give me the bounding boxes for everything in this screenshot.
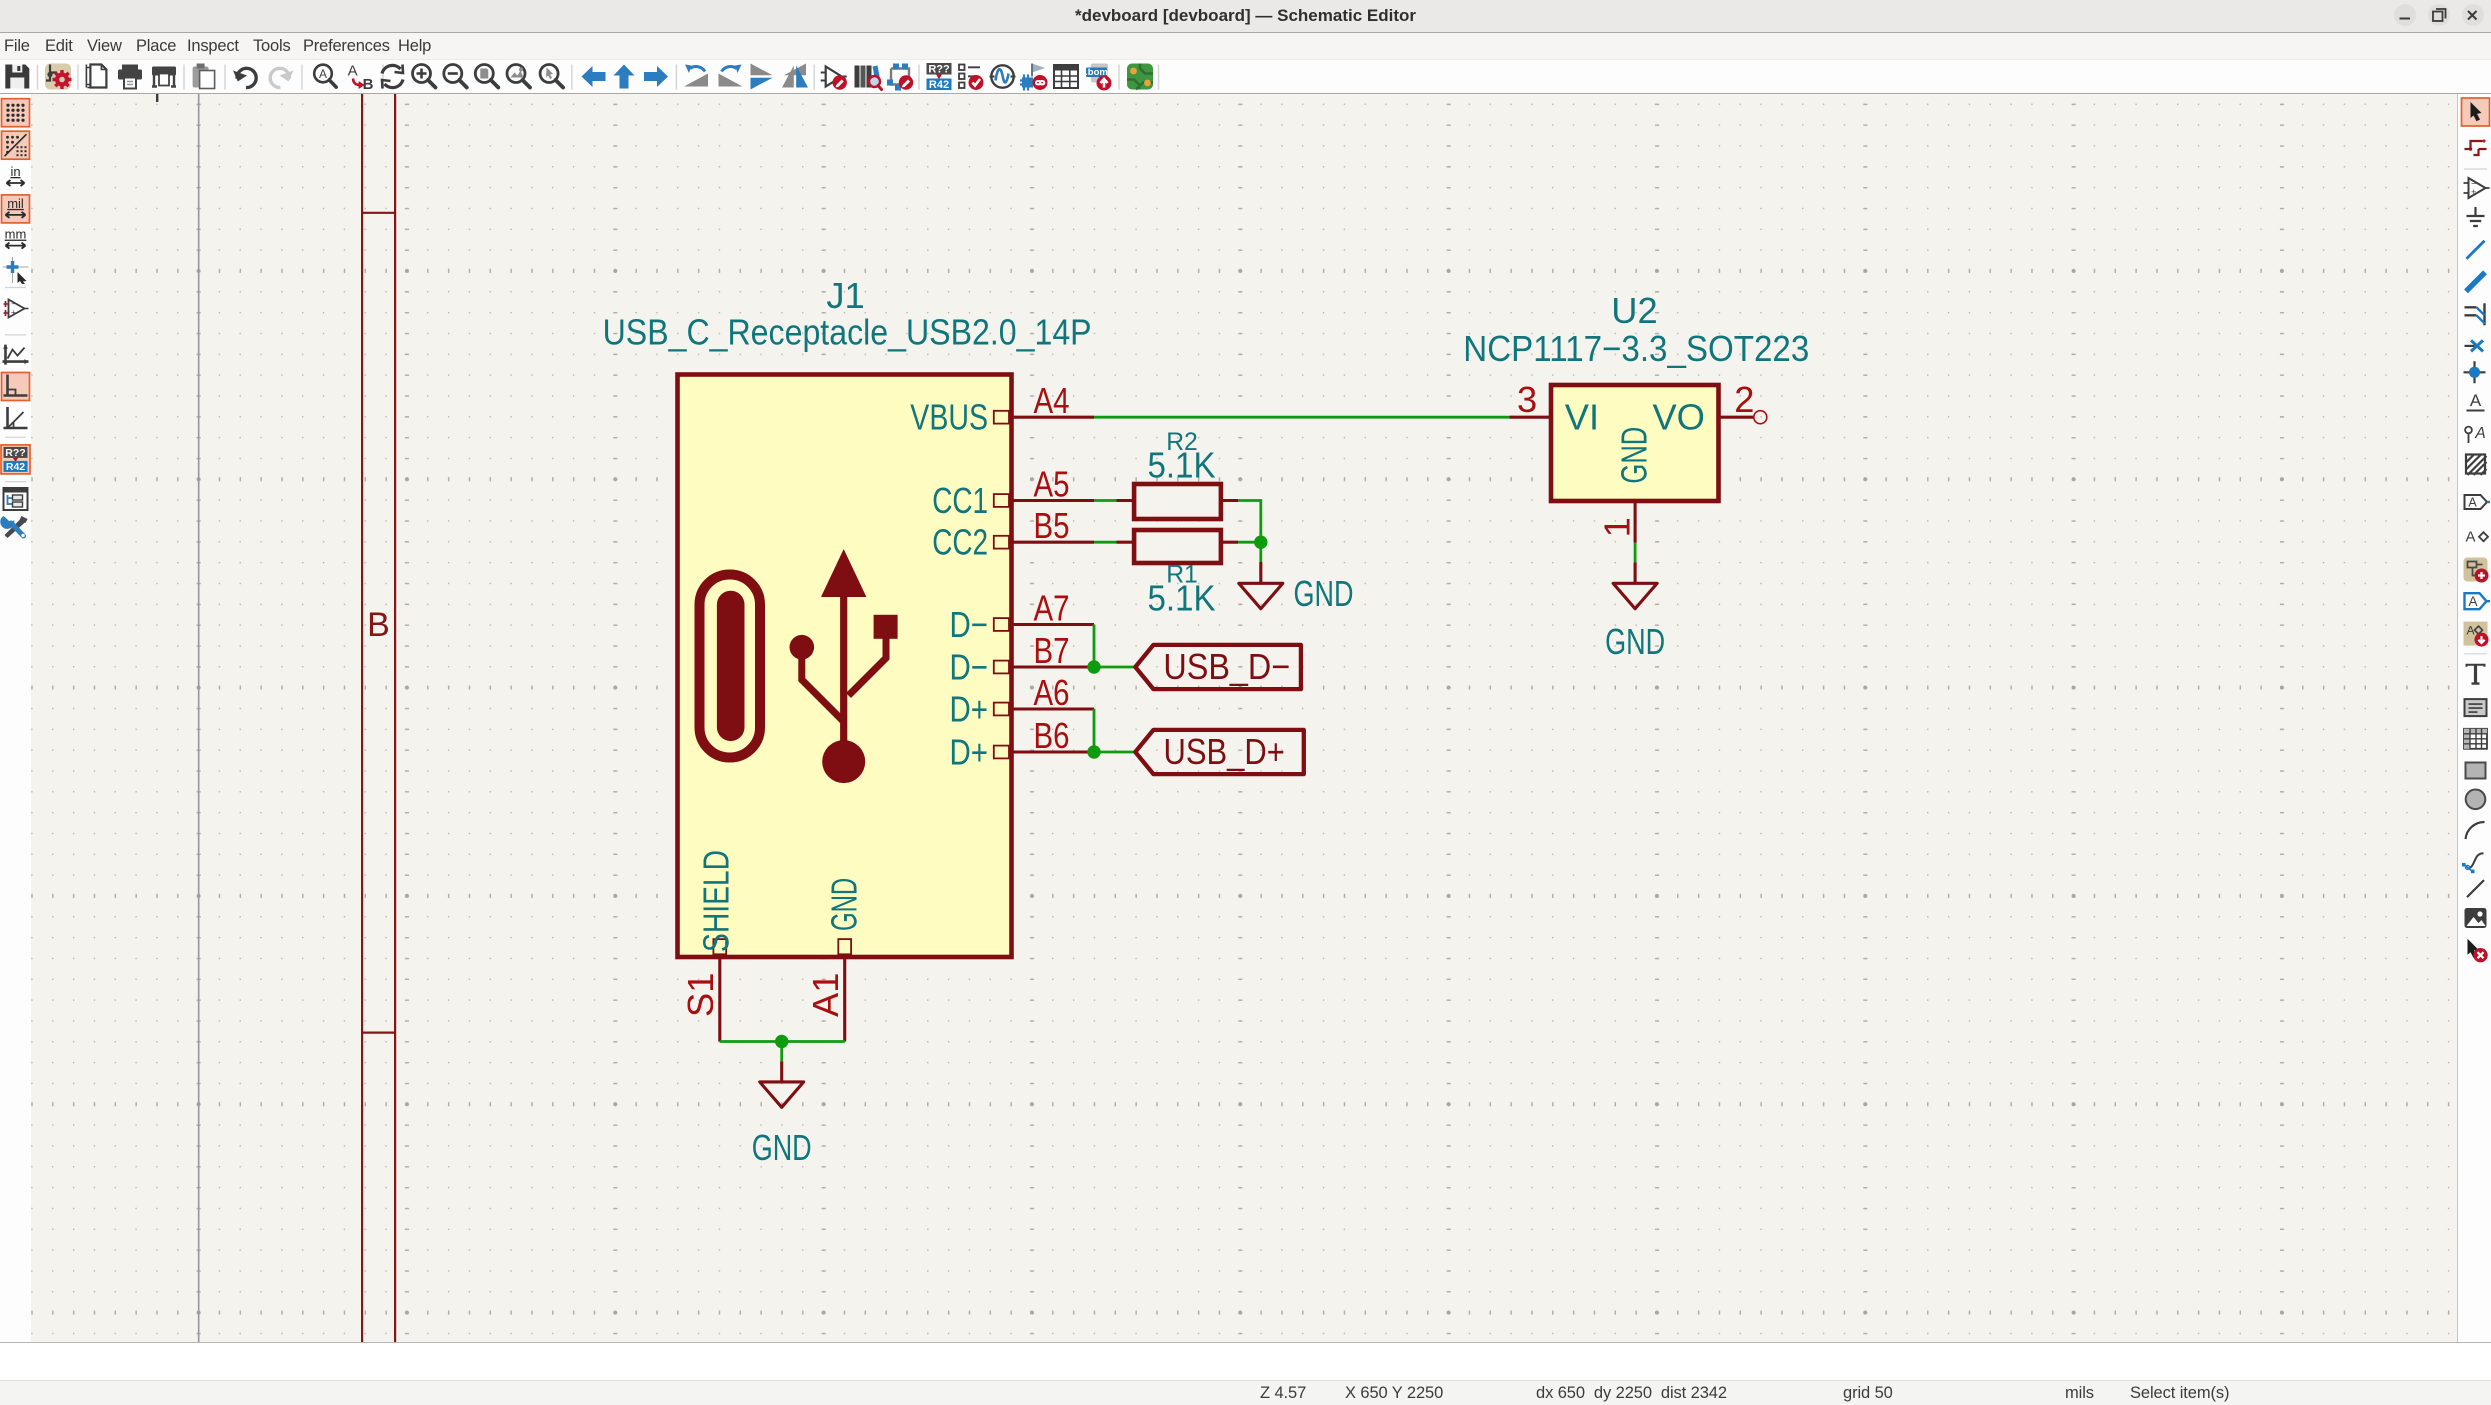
wire S1 to A1 bottom — [720, 1040, 845, 1043]
J1 pin D+ B6 — [950, 715, 1095, 773]
annotate — [927, 63, 952, 91]
wire junction to GND stub — [1259, 542, 1262, 562]
svg-text:J1: J1 — [826, 275, 864, 316]
bom export — [1085, 64, 1111, 91]
svg-text:A7: A7 — [1034, 587, 1070, 628]
mirror vertically — [751, 64, 773, 90]
hierarchy navigator — [4, 488, 28, 510]
J1 pin VBUS A4 — [910, 380, 1094, 438]
svg-text:B6: B6 — [1034, 715, 1070, 756]
svg-text:B: B — [367, 606, 390, 644]
bus tool — [2466, 272, 2485, 291]
hierarchical label tool — [2465, 529, 2488, 546]
junction D+ — [1087, 745, 1100, 758]
wire A6 corner down to B6 junction — [1093, 709, 1096, 752]
U2 body — [1551, 385, 1719, 501]
symbol editor — [821, 67, 847, 90]
hierarchical sheet tool — [2466, 455, 2487, 476]
redo (disabled) — [270, 68, 293, 87]
properties wrench — [0, 516, 27, 538]
wire CC2 to R1 — [1094, 541, 1117, 544]
full cursor toggle — [3, 257, 29, 284]
bezier tool — [2462, 853, 2484, 873]
erc — [959, 65, 984, 91]
image tool — [2465, 908, 2487, 928]
svg-text:A: A — [2468, 496, 2477, 510]
page settings — [86, 65, 106, 88]
svg-text:mm: mm — [5, 227, 27, 242]
bus entry tool — [2465, 303, 2485, 325]
library browser — [855, 66, 882, 90]
svg-text:A: A — [348, 63, 358, 80]
import sheet pin tool — [2464, 558, 2489, 583]
svg-text:GND: GND — [752, 1127, 812, 1168]
place power port tool — [2467, 207, 2485, 226]
svg-text:A6: A6 — [1034, 672, 1070, 713]
wire A7 corner down to B7 junction — [1093, 625, 1096, 668]
select tool (selected) — [2462, 98, 2490, 126]
resistor R2 — [1117, 429, 1239, 519]
save — [5, 65, 29, 89]
import hier label tool — [2464, 622, 2489, 647]
hidden pins toggle — [4, 300, 29, 318]
highlight net tool — [2465, 140, 2487, 156]
wire R2 to junction column — [1238, 501, 1261, 543]
zoom in — [413, 65, 436, 88]
zoom to fit — [475, 65, 498, 88]
J1 pin D+ A6 — [950, 672, 1095, 730]
wire B6 junction to USB_D+ label — [1094, 751, 1135, 754]
junction bottom GND — [775, 1035, 788, 1048]
svg-text:5.1K: 5.1K — [1148, 578, 1216, 619]
svg-text:SHIELD: SHIELD — [696, 850, 737, 952]
svg-text:A: A — [2470, 391, 2482, 410]
svg-text:D+: D+ — [950, 689, 989, 730]
connector J1 — [603, 275, 1094, 1042]
svg-text:1: 1 — [1597, 517, 1638, 537]
power symbol GND under U2 — [1605, 562, 1665, 662]
nav up — [614, 65, 635, 89]
zoom to objects — [507, 65, 530, 88]
wire B7 junction to USB_D- label — [1094, 666, 1135, 669]
circle tool — [2466, 790, 2486, 810]
schematic setup gear — [45, 64, 72, 90]
svg-text:R??: R?? — [928, 64, 950, 76]
svg-text:R42: R42 — [929, 79, 949, 91]
svg-text:GND: GND — [1294, 573, 1354, 614]
grid origin button (selected) — [2, 131, 30, 159]
wire tool — [2467, 241, 2485, 259]
wire junction to GND stub bottom — [780, 1042, 783, 1062]
assign footprints — [1020, 64, 1048, 91]
svg-text:A: A — [2474, 425, 2485, 442]
svg-text:5.1K: 5.1K — [1148, 445, 1216, 486]
find replace — [348, 63, 374, 94]
svg-text:D−: D− — [950, 647, 989, 688]
svg-text:+: + — [11, 308, 16, 317]
plotter — [152, 67, 176, 87]
mirror horizontally — [782, 64, 808, 88]
text box tool — [2465, 699, 2487, 716]
units mm — [5, 227, 27, 249]
svg-text:GND: GND — [1614, 427, 1655, 484]
power symbol GND under J1 — [752, 1061, 812, 1168]
table tool — [2464, 729, 2487, 749]
svg-text:NCP1117−3.3_SOT223: NCP1117−3.3_SOT223 — [1463, 328, 1809, 369]
refresh — [382, 65, 403, 89]
J1 usb trident — [790, 549, 898, 783]
svg-text:GND: GND — [824, 878, 865, 931]
svg-text:VBUS: VBUS — [910, 397, 988, 438]
svg-text:3: 3 — [1517, 379, 1537, 420]
rotate ccw — [684, 65, 708, 87]
J1 pin CC2 B5 — [932, 505, 1094, 563]
find — [314, 65, 336, 87]
global label USB_D+ — [1135, 730, 1304, 774]
J1 pin GND A1 — [805, 878, 865, 1042]
junction D- — [1087, 660, 1100, 673]
global label USB_D- — [1135, 645, 1301, 689]
U2 pin 2 VO unconnected — [1719, 416, 1754, 419]
svg-text:R??: R?? — [5, 447, 25, 459]
svg-text:R42: R42 — [6, 461, 25, 473]
nav back — [582, 66, 606, 87]
J1 pin SHIELD S1 — [680, 850, 737, 1042]
svg-text:in: in — [10, 164, 20, 179]
pcb editor — [1127, 64, 1153, 90]
J1 pin D- A7 — [950, 587, 1095, 645]
print — [118, 65, 142, 89]
svg-text:B: B — [363, 76, 374, 93]
hv lines only (selected) — [2, 373, 30, 401]
wire VBUS A4 to U2 VI — [1094, 416, 1510, 419]
svg-text:B7: B7 — [1034, 630, 1070, 671]
rotate cw — [719, 65, 743, 87]
blue global label tool — [2465, 593, 2491, 609]
netclass directive tool — [2465, 425, 2486, 443]
svg-text:A1: A1 — [805, 973, 846, 1017]
svg-text:VO: VO — [1652, 397, 1704, 438]
no connect tool — [2465, 340, 2484, 351]
rectangle tool — [2466, 763, 2486, 779]
power symbol GND at CC divider — [1239, 562, 1354, 614]
regulator U2 — [1463, 290, 1809, 543]
resistor R1 — [1117, 530, 1239, 619]
delete tool — [2468, 939, 2488, 963]
paste — [193, 64, 215, 89]
J1 usb logo pill — [700, 575, 761, 758]
simulator — [990, 65, 1016, 87]
global label tool — [2465, 495, 2491, 510]
arc tool — [2466, 822, 2485, 839]
svg-text:A: A — [2468, 594, 2477, 609]
J1 pin D- B7 — [950, 630, 1095, 688]
svg-text:D+: D+ — [950, 732, 989, 773]
svg-text:A: A — [319, 67, 327, 81]
wire CC1 to R2 — [1094, 499, 1117, 502]
svg-text:A4: A4 — [1034, 380, 1070, 421]
zoom out — [444, 65, 467, 88]
svg-text:U2: U2 — [1611, 290, 1657, 331]
grid style button (selected) — [2, 99, 30, 127]
svg-text:USB_D−: USB_D− — [1163, 646, 1290, 687]
wire U2 pin1 to GND — [1634, 543, 1637, 563]
svg-text:B5: B5 — [1034, 505, 1070, 546]
svg-text:mil: mil — [7, 196, 24, 211]
symbol fields table — [1054, 65, 1078, 88]
svg-text:D−: D− — [950, 604, 989, 645]
svg-text:2: 2 — [1734, 379, 1754, 420]
svg-text:CC2: CC2 — [932, 522, 988, 563]
U2 pin 1 GND — [1634, 501, 1637, 543]
J1 usb logo inner pill — [717, 591, 745, 741]
svg-text:USB_C_Receptacle_USB2.0_14P: USB_C_Receptacle_USB2.0_14P — [603, 312, 1092, 353]
line tool — [2467, 880, 2484, 897]
net label tool — [2467, 391, 2485, 411]
U2 pin 3 VI — [1510, 416, 1552, 419]
svg-text:USB_D+: USB_D+ — [1164, 731, 1285, 772]
45deg lines — [4, 407, 28, 428]
J1 body — [678, 375, 1012, 958]
units inches — [7, 164, 25, 186]
svg-text:A: A — [2466, 624, 2474, 638]
undo — [233, 68, 256, 87]
junction tool — [2464, 361, 2486, 383]
text tool — [2466, 664, 2486, 685]
svg-text:A5: A5 — [1034, 463, 1070, 504]
svg-text:S1: S1 — [680, 973, 721, 1017]
svg-text:VI: VI — [1565, 397, 1599, 438]
svg-text:A: A — [2465, 529, 2475, 546]
J1 pin CC1 A5 — [932, 463, 1094, 521]
units mils (selected) — [2, 195, 30, 223]
zoom to selection — [540, 65, 563, 88]
annotate tool (selected) — [1, 445, 30, 474]
junction CC divider — [1254, 536, 1267, 549]
wire R1 to junction — [1238, 541, 1261, 544]
svg-text:+: + — [2471, 187, 2476, 197]
free angle graphic lines — [3, 345, 29, 365]
nav forward — [644, 66, 668, 87]
svg-text:GND: GND — [1605, 621, 1665, 662]
svg-text:CC1: CC1 — [932, 480, 988, 521]
footprint editor — [887, 64, 913, 91]
place symbol tool — [2464, 178, 2490, 198]
